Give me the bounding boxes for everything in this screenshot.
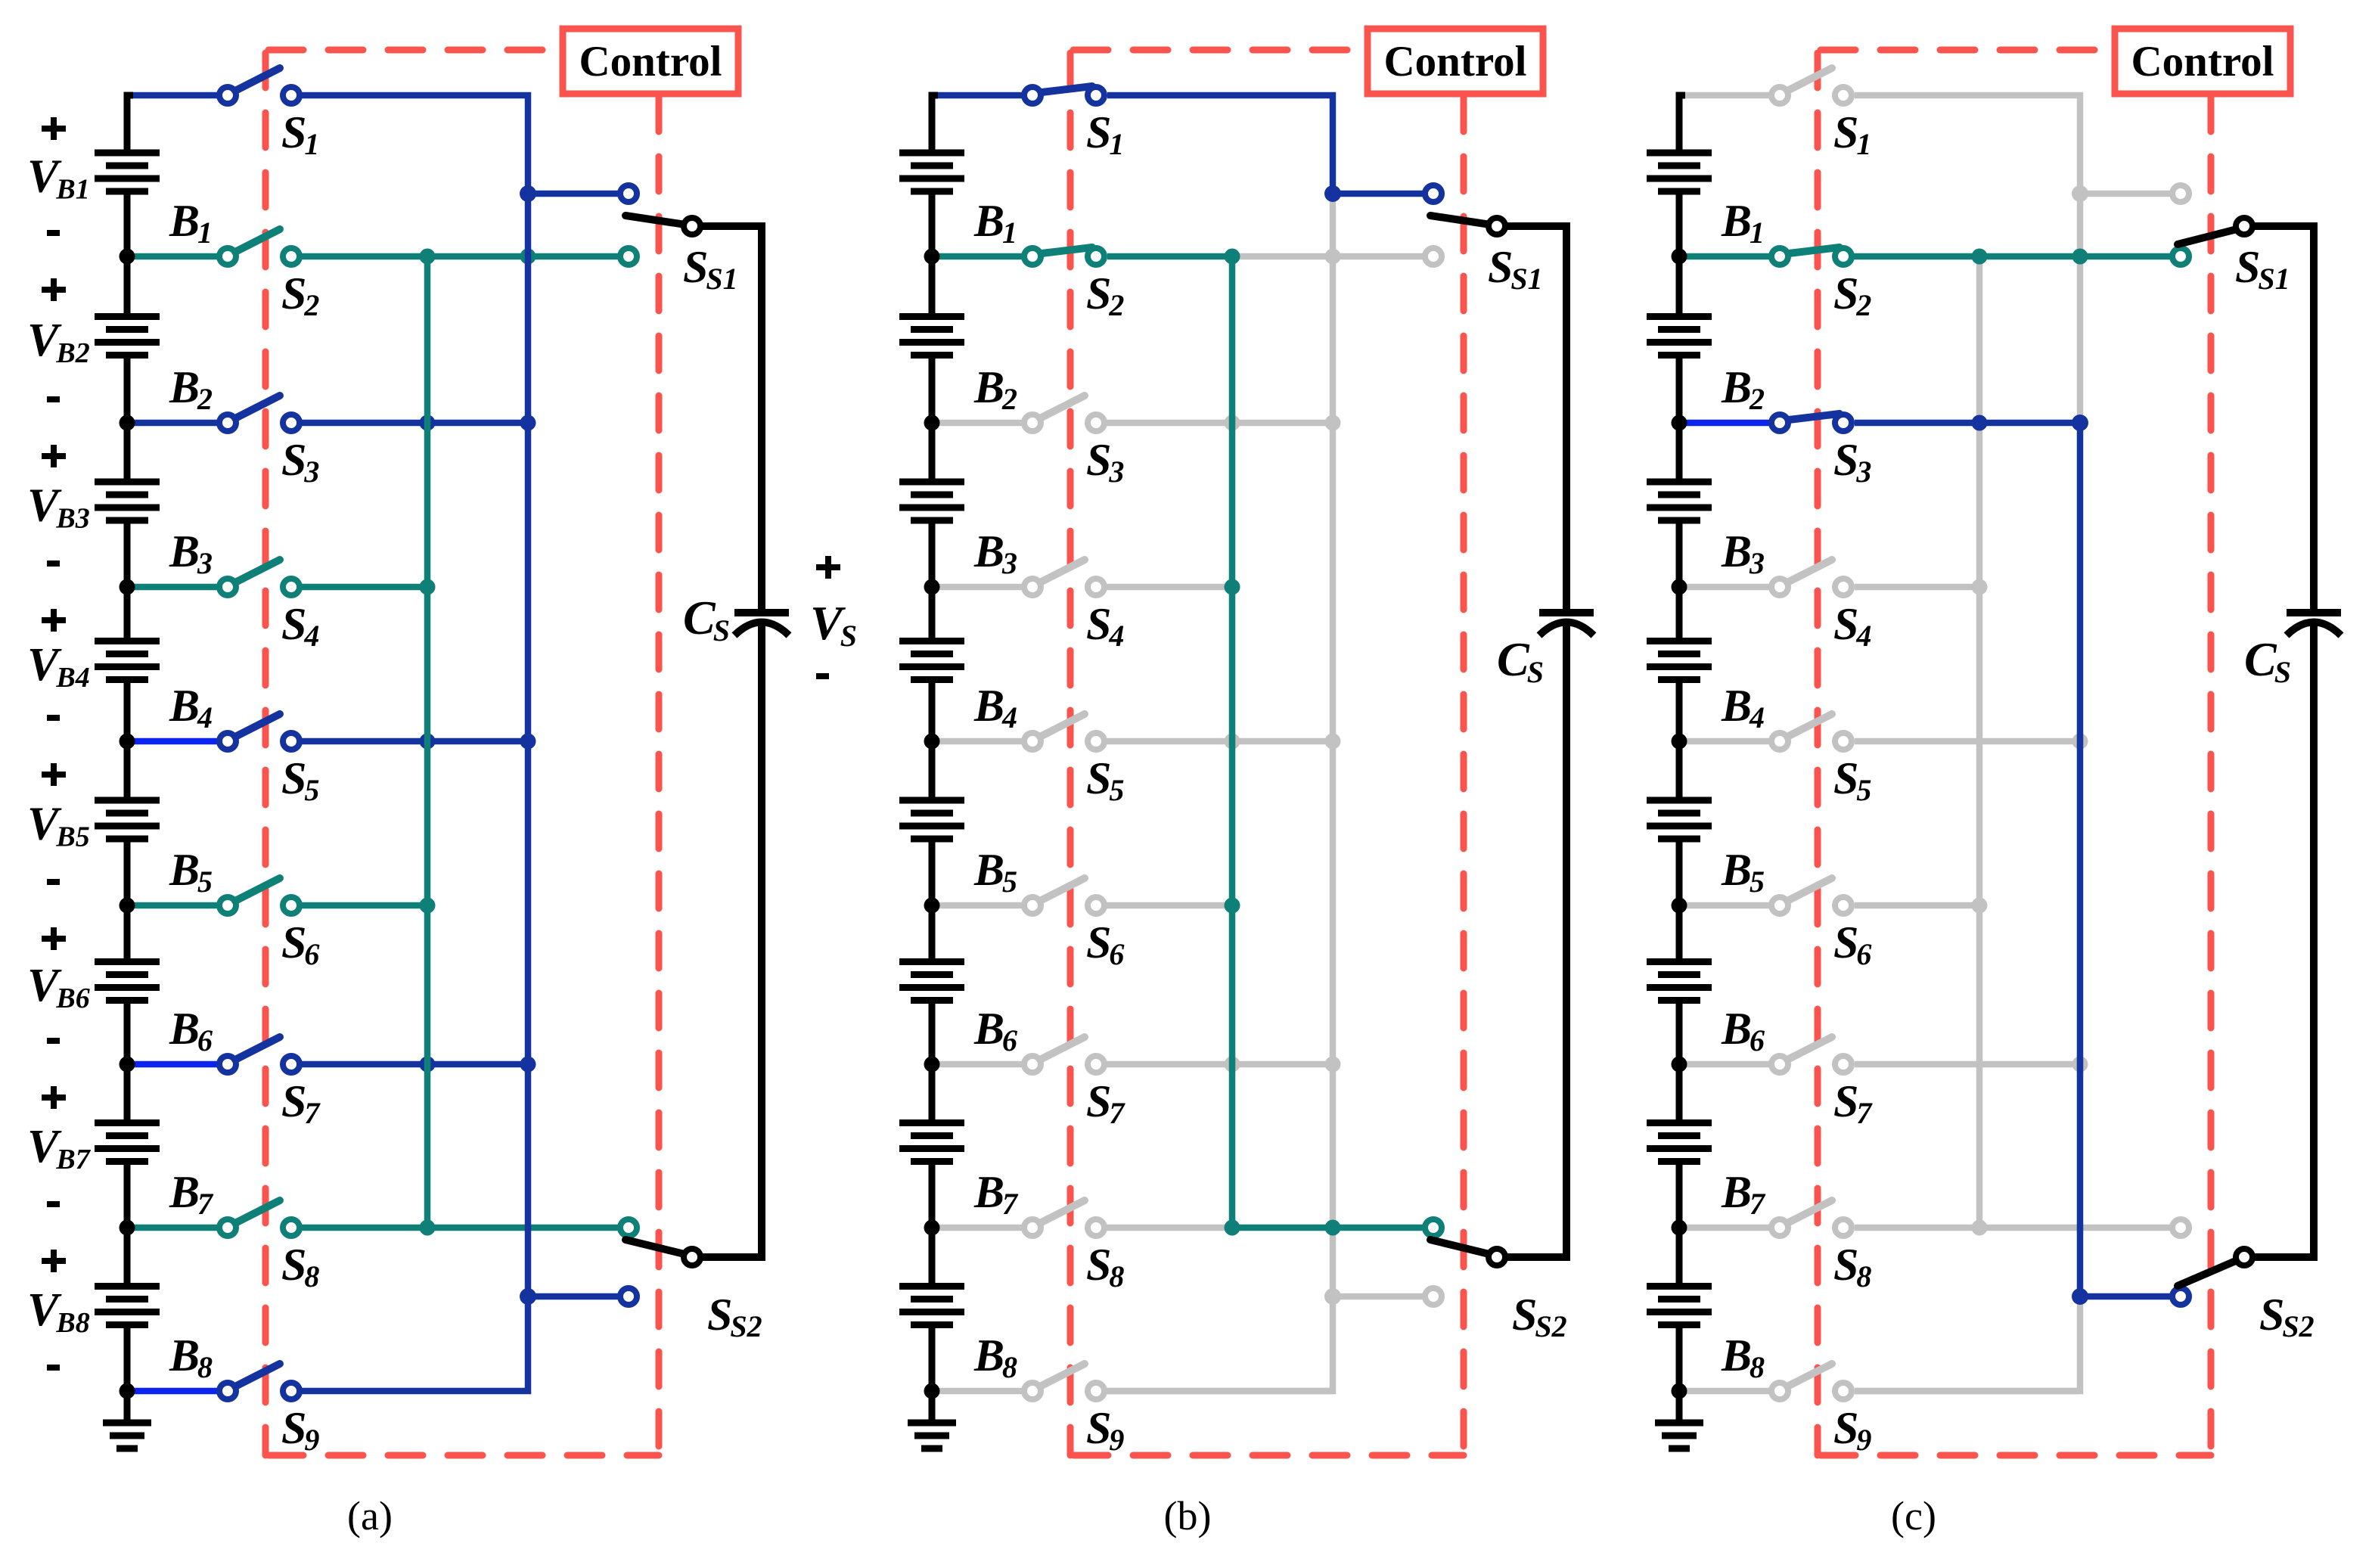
- svg-text:S4: S4: [1086, 599, 1124, 653]
- switch S9 right terminal (panel a): [283, 1383, 300, 1399]
- svg-text:B7: B7: [973, 1167, 1019, 1221]
- wire switch S7 input segment (panel c): [1682, 1061, 1780, 1068]
- svg-text:S8: S8: [1086, 1240, 1124, 1293]
- node B1- junction dot (panel a): [120, 249, 135, 265]
- switch S1 lever (open) (panel c): [1787, 68, 1832, 91]
- switch S3 lever (open) (panel b): [1040, 396, 1085, 418]
- gray vertical bus (former teal bus) (panel c): [1976, 256, 1983, 1228]
- svg-text:S5: S5: [281, 753, 319, 807]
- switch S8 lever (open) (panel a): [235, 1200, 280, 1223]
- svg-text:S6: S6: [281, 918, 319, 971]
- node B4- junction dot (panel a): [120, 734, 135, 750]
- switch S7 left terminal (panel a): [219, 1056, 236, 1073]
- switch S4 lever (open) (panel b): [1040, 560, 1085, 582]
- svg-text:S6: S6: [1086, 918, 1124, 971]
- svg-text:(b): (b): [1164, 1493, 1212, 1539]
- control-area dashed boundary right edge (panel c): [2208, 94, 2215, 1455]
- minus polarity mark V_S (panel a): [816, 673, 829, 679]
- svg-text:S8: S8: [1833, 1240, 1871, 1293]
- junction dot gray bus y=980 (panel b): [1325, 734, 1341, 750]
- control-area dashed boundary bottom edge (panel c): [1818, 1452, 2211, 1459]
- S_S2 gray throw terminal (panel b): [1425, 1288, 1442, 1305]
- junction dot teal path (1629,1197) (panel b): [1225, 898, 1240, 914]
- node B7- junction dot (panel a): [120, 1220, 135, 1236]
- wire switch S3 input segment (panel b): [935, 420, 1032, 427]
- wire switch S3 input segment (panel a): [130, 420, 228, 427]
- node B2- junction dot (panel a): [120, 415, 135, 431]
- battery B2 cell symbol (panel a): [95, 256, 160, 423]
- svg-text:B6: B6: [973, 1004, 1017, 1057]
- battery B3 cell symbol (panel b): [899, 423, 964, 587]
- switch S7 left terminal (panel c): [1771, 1056, 1788, 1073]
- selector switch S_S2 pivot terminal (panel c): [2236, 1249, 2252, 1265]
- node B6- junction dot (panel b): [924, 1057, 940, 1073]
- junction dot gray bus y=1623 (panel c): [1972, 1220, 1988, 1236]
- switch S5 lever (open) (panel b): [1040, 714, 1085, 737]
- svg-text:S9: S9: [1833, 1403, 1871, 1457]
- switch S4 right terminal (panel a): [283, 579, 300, 595]
- battery B4 cell symbol (panel a): [95, 587, 160, 741]
- battery B1 cell symbol (panel c): [1647, 95, 1712, 256]
- node B5- junction dot (panel b): [924, 898, 940, 914]
- node B3- junction dot (panel c): [1672, 579, 1687, 595]
- node B8- junction dot (panel c): [1672, 1383, 1687, 1399]
- svg-text:S7: S7: [281, 1076, 321, 1130]
- control-area dashed boundary bottom edge (panel a): [265, 1452, 659, 1459]
- junction dot navy at S_S2 stub (panel c): [2072, 1288, 2088, 1305]
- ground symbol (panel b): [908, 1391, 956, 1448]
- wire switch S7 output segment (panel a): [291, 1061, 528, 1068]
- svg-text:B2: B2: [169, 362, 213, 416]
- node B1- junction dot (panel c): [1672, 249, 1687, 265]
- Control box (panel a): [563, 29, 738, 94]
- wire stub gray bus to lower gray throw (panel b): [1333, 1293, 1433, 1300]
- battery B8 cell symbol (panel a): [95, 1228, 160, 1391]
- svg-text:S4: S4: [1833, 599, 1871, 653]
- wire switch S8 input segment (panel a): [130, 1225, 228, 1231]
- wire S_S1 common to capacitor top (panel a): [692, 226, 762, 242]
- wire S_S2 common to capacitor bottom (panel c): [2244, 1240, 2314, 1257]
- wire switch S3 output segment (panel b): [1096, 420, 1333, 427]
- S_S1 navy throw terminal (panel a): [620, 185, 637, 202]
- switch S1 lever (open) (panel a): [235, 68, 280, 91]
- svg-text:B6: B6: [169, 1004, 213, 1057]
- svg-text:CS: CS: [2244, 632, 2291, 689]
- node B1- junction dot (panel b): [924, 249, 940, 265]
- navy selection bus vertical (panel a): [525, 92, 532, 1394]
- minus polarity mark battery B3 (panel a): [47, 560, 60, 567]
- switch S3 left terminal (panel a): [219, 415, 236, 431]
- switch S7 lever (open) (panel c): [1787, 1037, 1832, 1060]
- node B7- junction dot (panel b): [924, 1220, 940, 1236]
- wire switch S5 output segment (panel c): [1855, 738, 2080, 745]
- svg-text:S1: S1: [281, 107, 319, 161]
- junction dot teal bus y=339 (panel a): [420, 249, 436, 265]
- wire S_S1 common to capacitor top (panel b): [1497, 226, 1566, 242]
- junction dot navy bus to S_S1 stub (panel a): [520, 185, 536, 202]
- svg-text:SS2: SS2: [2259, 1290, 2315, 1343]
- junction dot navy bus y=1407 (panel a): [520, 1057, 536, 1073]
- svg-text:B1: B1: [169, 196, 213, 250]
- plus polarity mark battery B5 (panel a): [42, 763, 66, 786]
- capacitor C_S (panel b): [1539, 226, 1594, 1257]
- svg-text:(a): (a): [347, 1493, 393, 1539]
- junction dot navy row at teal bus y=1407 (panel a): [420, 1057, 436, 1073]
- wire switch S6 output segment (panel a): [291, 902, 427, 909]
- svg-text:B7: B7: [1721, 1167, 1766, 1221]
- wire switch S2 input segment (panel c): [1682, 253, 1780, 260]
- wire switch S4 output segment (panel b): [1096, 584, 1232, 591]
- junction dot teal bus y=776 (panel a): [420, 579, 436, 595]
- switch S2 lever (closed) (panel b): [1042, 247, 1092, 253]
- svg-text:B1: B1: [973, 196, 1017, 250]
- battery B5 cell symbol (panel a): [95, 741, 160, 905]
- switch S3 right terminal (panel c): [1835, 415, 1852, 431]
- switch S2 left terminal (panel a): [219, 248, 236, 265]
- junction dot teal row at navy vertical (panel c): [2072, 249, 2088, 265]
- wire switch S5 input segment (panel c): [1682, 738, 1780, 745]
- wire switch S8 output segment (panel c): [1855, 1225, 2181, 1231]
- junction dot gray stub upper (panel c): [2072, 185, 2088, 202]
- svg-text:B4: B4: [169, 681, 213, 734]
- svg-text:S1: S1: [1833, 107, 1871, 161]
- switch S9 lever (open) (panel c): [1787, 1364, 1832, 1386]
- wire switch S2 output segment (panel a): [291, 253, 629, 260]
- node B2- junction dot (panel c): [1672, 415, 1687, 431]
- switch S5 right terminal (panel a): [283, 733, 300, 750]
- plus polarity mark battery B7 (panel a): [42, 1086, 66, 1109]
- switch S1 right terminal (panel c): [1835, 87, 1852, 104]
- S_S1 navy throw terminal (panel b): [1425, 185, 1442, 202]
- node B4- junction dot (panel c): [1672, 734, 1687, 750]
- svg-text:B2: B2: [973, 362, 1017, 416]
- minus polarity mark battery B8 (panel a): [47, 1365, 60, 1371]
- switch S9 lever (open) (panel b): [1040, 1364, 1085, 1386]
- switch S1 left terminal (panel a): [219, 87, 236, 104]
- junction dot S2 row at navy bus (panel a): [520, 249, 536, 265]
- switch S5 right terminal (panel c): [1835, 733, 1852, 750]
- battery B2 cell symbol (panel b): [899, 256, 964, 423]
- svg-text:VB1: VB1: [27, 151, 90, 206]
- junction dot gray bus y=339 (panel b): [1325, 249, 1341, 265]
- node B8- junction dot (panel b): [924, 1383, 940, 1399]
- switch S5 left terminal (panel c): [1771, 733, 1788, 750]
- switch S8 left terminal (panel c): [1771, 1219, 1788, 1236]
- battery B4 cell symbol (panel b): [899, 587, 964, 741]
- selector switch S_S2 lever (panel c): [2178, 1258, 2243, 1286]
- S_S2 teal throw terminal (panel a): [620, 1219, 637, 1236]
- switch S7 right terminal (panel c): [1835, 1056, 1852, 1073]
- wire switch S5 output segment (panel a): [291, 738, 528, 745]
- svg-text:S3: S3: [281, 435, 319, 489]
- switch S6 left terminal (panel b): [1024, 897, 1041, 914]
- svg-text:S7: S7: [1086, 1076, 1125, 1130]
- switch S2 lever (closed) (panel c): [1789, 247, 1840, 253]
- svg-text:S8: S8: [281, 1240, 319, 1293]
- wire switch S5 input segment (panel a): [130, 738, 228, 745]
- wire switch S9 output segment (panel b): [1096, 1388, 1333, 1395]
- S_S2 navy throw terminal (panel c): [2172, 1288, 2189, 1305]
- S_S2 gray throw terminal (panel c): [2172, 1219, 2189, 1236]
- wire stub navy bus to S_S1 throw (panel a): [528, 191, 629, 197]
- battery B1 cell symbol (panel a): [95, 95, 160, 256]
- switch S8 right terminal (panel b): [1088, 1219, 1104, 1236]
- switch S5 lever (open) (panel c): [1787, 714, 1832, 737]
- svg-text:B8: B8: [169, 1330, 213, 1384]
- switch S9 right terminal (panel c): [1835, 1383, 1852, 1399]
- wire switch S3 output segment (panel a): [291, 420, 528, 427]
- junction dot navy row at teal bus y=559 (panel a): [420, 415, 436, 431]
- selector switch S_S1 lever (panel b): [1430, 216, 1495, 225]
- switch S6 left terminal (panel c): [1771, 897, 1788, 914]
- S_S1 teal throw terminal (panel c): [2172, 248, 2189, 265]
- svg-text:SS1: SS1: [1488, 242, 1543, 296]
- svg-text:VB5: VB5: [27, 799, 90, 853]
- wire switch S8 input segment (panel b): [935, 1225, 1032, 1231]
- wire navy active path S1 to S_S1 (panel b): [1107, 95, 1433, 194]
- node B4- junction dot (panel b): [924, 734, 940, 750]
- svg-text:B2: B2: [1721, 362, 1765, 416]
- wire switch S8 input segment (panel c): [1682, 1225, 1780, 1231]
- wire switch S8 output segment (panel b): [1096, 1225, 1232, 1231]
- switch S7 left terminal (panel b): [1024, 1056, 1041, 1073]
- plus polarity mark battery B1 (panel a): [42, 117, 66, 140]
- svg-text:VS: VS: [810, 596, 857, 653]
- switch S2 lever (open) (panel a): [235, 229, 280, 252]
- wire switch S4 output segment (panel a): [291, 584, 427, 591]
- svg-text:VB2: VB2: [27, 315, 90, 369]
- capacitor C_S (panel a): [734, 226, 789, 1257]
- battery B5 cell symbol (panel b): [899, 741, 964, 905]
- wire battery-string top corner (panel b): [932, 95, 938, 110]
- svg-text:B6: B6: [1721, 1004, 1765, 1057]
- wire switch S5 output segment (panel b): [1096, 738, 1333, 745]
- switch S3 right terminal (panel b): [1088, 415, 1104, 431]
- switch S6 lever (open) (panel c): [1787, 878, 1832, 901]
- wire switch S1 input segment (panel b): [935, 92, 1032, 99]
- control-area dashed boundary top edge (panel a): [265, 47, 563, 54]
- junction dot gray bus y=1407 (panel b): [1325, 1057, 1341, 1073]
- battery B3 cell symbol (panel a): [95, 423, 160, 587]
- selector switch S_S1 pivot terminal (panel a): [684, 218, 700, 234]
- svg-text:VB6: VB6: [27, 960, 90, 1014]
- minus polarity mark battery B1 (panel a): [47, 230, 60, 236]
- battery B6 cell symbol (panel a): [95, 905, 160, 1064]
- junction dot teal path (1762,1623) (panel b): [1325, 1220, 1341, 1236]
- svg-text:B3: B3: [169, 526, 213, 580]
- switch S6 lever (open) (panel b): [1040, 878, 1085, 901]
- wire switch S5 input segment (panel b): [935, 738, 1032, 745]
- wire switch S6 input segment (panel b): [935, 902, 1032, 909]
- Control box (panel b): [1368, 29, 1543, 94]
- svg-text:CS: CS: [683, 591, 730, 647]
- junction dot navy bus to S_S2 stub (panel a): [520, 1288, 536, 1305]
- junction dot gray bus y=776 (panel c): [1972, 579, 1988, 595]
- switch S8 right terminal (panel a): [283, 1219, 300, 1236]
- svg-text:B1: B1: [1721, 196, 1765, 250]
- switch S8 left terminal (panel b): [1024, 1219, 1041, 1236]
- S_S1 gray throw terminal (panel b): [1425, 248, 1442, 265]
- battery B4 cell symbol (panel c): [1647, 587, 1712, 741]
- switch S8 lever (open) (panel b): [1040, 1200, 1085, 1223]
- wire switch S9 input segment (panel a): [130, 1388, 228, 1395]
- switch S5 left terminal (panel a): [219, 733, 236, 750]
- svg-text:B4: B4: [973, 681, 1017, 734]
- junction dot teal path (1629,776) (panel b): [1225, 579, 1240, 595]
- wire switch S4 output segment (panel c): [1855, 584, 1979, 591]
- switch S5 lever (open) (panel a): [235, 714, 280, 737]
- node B3- junction dot (panel a): [120, 579, 135, 595]
- junction dot teal path (1629,1623) (panel b): [1225, 1220, 1240, 1236]
- battery B8 cell symbol (panel c): [1647, 1228, 1712, 1391]
- wire S_S2 common to capacitor bottom (panel b): [1497, 1240, 1566, 1257]
- wire teal active path S2 to S_S2 (panel b): [1107, 256, 1433, 1228]
- control-area dashed boundary left edge (panel c): [1815, 50, 1821, 1455]
- battery B7 cell symbol (panel a): [95, 1064, 160, 1228]
- svg-text:SS2: SS2: [1512, 1290, 1567, 1343]
- wire switch S4 input segment (panel c): [1682, 584, 1780, 591]
- minus polarity mark battery B4 (panel a): [47, 715, 60, 721]
- node B2- junction dot (panel b): [924, 415, 940, 431]
- svg-text:VB7: VB7: [27, 1121, 92, 1175]
- svg-text:S9: S9: [281, 1403, 319, 1457]
- junction dot teal bus y=1623 (panel a): [420, 1220, 436, 1236]
- switch S3 left terminal (panel c): [1771, 415, 1788, 431]
- switch S3 lever (closed) (panel c): [1789, 414, 1840, 420]
- svg-text:VB4: VB4: [27, 639, 90, 694]
- wire switch S2 input segment (panel a): [130, 253, 228, 260]
- minus polarity mark battery B7 (panel a): [47, 1201, 60, 1207]
- switch S2 right terminal (panel a): [283, 248, 300, 265]
- node B3- junction dot (panel b): [924, 579, 940, 595]
- junction dot gray row end y=980 (panel c): [2072, 734, 2088, 750]
- switch S7 lever (open) (panel b): [1040, 1037, 1085, 1060]
- svg-text:B7: B7: [169, 1167, 214, 1221]
- wire switch S6 output segment (panel b): [1096, 902, 1232, 909]
- switch S1 lever (closed) (panel b): [1042, 86, 1092, 92]
- svg-text:VB3: VB3: [27, 480, 90, 535]
- junction dot navy bus y=980 (panel a): [520, 734, 536, 750]
- plus polarity mark V_S (panel a): [816, 556, 840, 579]
- wire switch S4 input segment (panel a): [130, 584, 228, 591]
- svg-text:(c): (c): [1891, 1493, 1936, 1539]
- wire battery-string top corner (panel c): [1679, 95, 1685, 110]
- wire switch S1 output segment (panel a): [291, 92, 531, 99]
- svg-text:Control: Control: [579, 38, 722, 85]
- S_S2 teal throw terminal (panel b): [1425, 1219, 1442, 1236]
- svg-text:S2: S2: [1833, 269, 1871, 322]
- control-area dashed boundary top edge (panel b): [1070, 47, 1368, 54]
- selector switch S_S1 pivot terminal (panel b): [1489, 218, 1505, 234]
- svg-text:B4: B4: [1721, 681, 1765, 734]
- switch S4 left terminal (panel a): [219, 579, 236, 595]
- svg-text:S5: S5: [1086, 753, 1124, 807]
- svg-text:B3: B3: [1721, 526, 1765, 580]
- plus polarity mark battery B6 (panel a): [42, 927, 66, 950]
- wire switch S7 output segment (panel b): [1096, 1061, 1333, 1068]
- wire battery-string top corner (panel a): [127, 95, 133, 110]
- wire stub gray to upper gray throw (panel c): [2080, 191, 2181, 197]
- switch S9 left terminal (panel c): [1771, 1383, 1788, 1399]
- switch S5 left terminal (panel b): [1024, 733, 1041, 750]
- plus polarity mark battery B3 (panel a): [42, 445, 66, 467]
- svg-text:S2: S2: [1086, 269, 1124, 322]
- wire switch S9 input segment (panel b): [935, 1388, 1032, 1395]
- switch S6 right terminal (panel c): [1835, 897, 1852, 914]
- switch S1 right terminal (panel b): [1088, 87, 1104, 104]
- switch S9 left terminal (panel b): [1024, 1383, 1041, 1399]
- switch S7 lever (open) (panel a): [235, 1037, 280, 1060]
- junction dot gray bus y=1197 (panel c): [1972, 898, 1988, 914]
- switch S1 right terminal (panel a): [283, 87, 300, 104]
- switch S3 lever (open) (panel a): [235, 396, 280, 418]
- svg-text:B3: B3: [973, 526, 1017, 580]
- wire switch S6 input segment (panel a): [130, 902, 228, 909]
- gray vertical below S_S2 stub to S9 corner (panel c): [1855, 1296, 2080, 1391]
- wire switch S8 output segment (panel a): [291, 1225, 629, 1231]
- junction dot gray row at teal bus y=1407 (panel b): [1225, 1057, 1240, 1073]
- junction dot navy row at gray bus (panel c): [1972, 415, 1988, 431]
- switch S5 right terminal (panel b): [1088, 733, 1104, 750]
- switch S2 left terminal (panel b): [1024, 248, 1041, 265]
- wire stub navy bus to S_S2 throw (panel a): [528, 1293, 629, 1300]
- control-area dashed boundary right edge (panel b): [1461, 94, 1467, 1455]
- wire switch S1 input segment (panel a): [130, 92, 228, 99]
- wire switch S7 output segment (panel c): [1855, 1061, 2080, 1068]
- switch S4 lever (open) (panel c): [1787, 560, 1832, 582]
- capacitor C_S (panel c): [2287, 226, 2341, 1257]
- wire switch S9 input segment (panel c): [1682, 1388, 1780, 1395]
- minus polarity mark battery B5 (panel a): [47, 879, 60, 885]
- switch S2 right terminal (panel c): [1835, 248, 1852, 265]
- battery B5 cell symbol (panel c): [1647, 741, 1712, 905]
- svg-text:S3: S3: [1833, 435, 1871, 489]
- ground symbol (panel c): [1655, 1391, 1703, 1448]
- switch S7 right terminal (panel b): [1088, 1056, 1104, 1073]
- junction dot gray row at teal bus y=980 (panel b): [1225, 734, 1240, 750]
- svg-text:S9: S9: [1086, 1403, 1124, 1457]
- switch S6 left terminal (panel a): [219, 897, 236, 914]
- wire switch S1 output segment with corner down (panel c): [1855, 95, 2080, 423]
- wire teal active S2 row to S_S1 throw (panel c): [1843, 253, 2181, 260]
- plus polarity mark battery B2 (panel a): [42, 278, 66, 301]
- svg-text:CS: CS: [1497, 632, 1544, 689]
- teal selection bus vertical (panel a): [424, 256, 431, 1228]
- svg-text:S7: S7: [1833, 1076, 1873, 1130]
- svg-text:VB8: VB8: [27, 1284, 90, 1339]
- svg-text:SS1: SS1: [2235, 242, 2290, 296]
- svg-text:S3: S3: [1086, 435, 1124, 489]
- selector switch S_S2 pivot terminal (panel b): [1489, 1249, 1505, 1265]
- minus polarity mark battery B6 (panel a): [47, 1038, 60, 1044]
- selector switch S_S2 lever (panel a): [626, 1240, 691, 1256]
- switch S1 left terminal (panel b): [1024, 87, 1041, 104]
- svg-text:B5: B5: [1721, 845, 1765, 899]
- plus polarity mark battery B8 (panel a): [42, 1250, 66, 1272]
- battery B8 cell symbol (panel b): [899, 1228, 964, 1391]
- wire switch S9 output segment (panel a): [291, 1388, 531, 1395]
- wire navy active path S3 down to S_S2 (panel c): [1855, 423, 2181, 1296]
- switch S8 lever (open) (panel c): [1787, 1200, 1832, 1223]
- ground symbol (panel a): [103, 1391, 151, 1448]
- junction dot teal row at gray bus (panel c): [1972, 249, 1988, 265]
- wire switch S6 input segment (panel c): [1682, 902, 1780, 909]
- wire switch S6 output segment (panel c): [1855, 902, 1979, 909]
- battery B2 cell symbol (panel c): [1647, 256, 1712, 423]
- svg-text:SS2: SS2: [707, 1290, 762, 1343]
- svg-text:S6: S6: [1833, 918, 1871, 971]
- switch S3 left terminal (panel b): [1024, 415, 1041, 431]
